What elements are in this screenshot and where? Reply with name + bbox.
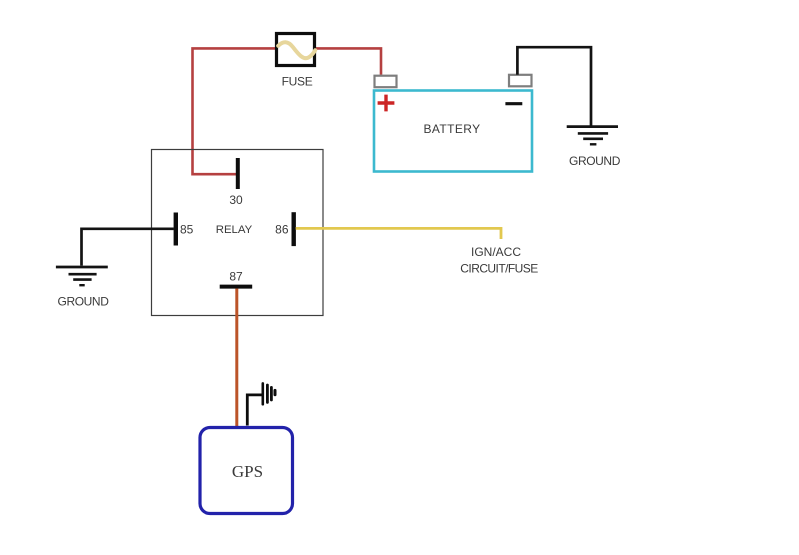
svg-text:BATTERY: BATTERY — [423, 122, 480, 136]
wire red fuse-right to battery positive terminal — [316, 48, 381, 74]
svg-text:GPS: GPS — [232, 462, 263, 481]
svg-text:GROUND: GROUND — [58, 295, 110, 309]
wire black GPS to antenna — [247, 395, 262, 426]
label 30 — [229, 193, 243, 207]
battery minus sign — [505, 102, 522, 105]
svg-text:CIRCUIT/FUSE: CIRCUIT/FUSE — [460, 262, 538, 276]
svg-text:85: 85 — [180, 223, 194, 237]
relay pin 86 — [292, 212, 296, 246]
wire red fuse-left to relay pin 30 — [193, 48, 276, 174]
relay pin 85 — [174, 213, 178, 246]
antenna symbol — [263, 383, 275, 404]
wire black battery negative to right ground — [517, 47, 591, 125]
ground symbol left — [56, 267, 108, 285]
label CIRCUIT/FUSE — [460, 262, 538, 276]
svg-text:IGN/ACC: IGN/ACC — [471, 245, 521, 259]
svg-text:FUSE: FUSE — [282, 75, 313, 89]
wire orange relay pin 87 to GPS — [235, 289, 238, 427]
svg-text:GROUND: GROUND — [569, 154, 621, 168]
svg-text:86: 86 — [275, 223, 289, 237]
label GROUND right — [569, 154, 621, 168]
battery positive terminal — [375, 76, 397, 88]
fuse F1 — [277, 34, 315, 66]
battery negative terminal — [509, 75, 532, 87]
wire black relay pin 85 to left ground — [82, 229, 174, 266]
ground symbol right — [567, 127, 618, 145]
svg-text:87: 87 — [229, 270, 243, 284]
label BATTERY — [423, 122, 480, 136]
label RELAY — [216, 224, 253, 236]
relay pin 87 — [220, 285, 253, 289]
svg-text:RELAY: RELAY — [216, 224, 253, 236]
battery plus sign — [378, 95, 395, 112]
label GROUND left — [58, 295, 110, 309]
GPS module box — [200, 428, 293, 514]
label FUSE — [282, 75, 313, 89]
label IGN/ACC — [471, 245, 521, 259]
wire yellow relay pin 86 to ignition circuit — [296, 228, 501, 239]
svg-text:30: 30 — [229, 193, 243, 207]
fuse element squiggle — [278, 42, 315, 58]
label 87 — [229, 270, 243, 284]
relay K1 box — [152, 150, 324, 316]
battery B1 — [374, 91, 532, 172]
label GPS — [232, 462, 263, 481]
relay pin 30 — [236, 158, 240, 189]
label 85 — [180, 223, 194, 237]
label 86 — [275, 223, 289, 237]
